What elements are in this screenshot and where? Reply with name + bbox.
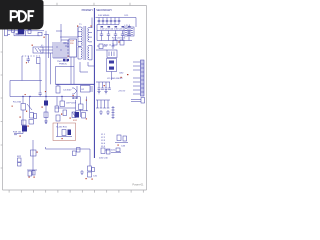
resistor R23	[18, 158, 22, 162]
node B	[22, 27, 23, 28]
node O	[61, 114, 62, 115]
resistor R12	[82, 113, 86, 119]
capacitor C3	[27, 56, 31, 63]
node R	[20, 136, 21, 137]
transistor Q2	[27, 97, 32, 113]
capacitor C17	[112, 43, 115, 49]
node F	[121, 77, 122, 78]
net label R12	[73, 120, 78, 122]
diode D13	[110, 18, 113, 25]
svg-text:L2 L3: L2 L3	[125, 25, 131, 27]
node A	[10, 28, 11, 29]
capacitor C13	[107, 31, 110, 41]
ground	[80, 170, 84, 175]
op-amp U2	[81, 86, 94, 93]
node Q2 b	[26, 111, 27, 112]
capacitor C4	[56, 84, 60, 93]
node bus j	[45, 91, 46, 92]
net label tag5	[128, 26, 131, 27]
capacitor C9	[39, 81, 42, 97]
component X2	[115, 135, 128, 143]
varistor RV1	[38, 32, 42, 36]
wire	[96, 81, 110, 83]
capacitor C8	[14, 134, 17, 135]
net label L2	[125, 25, 131, 27]
resistor R31	[88, 172, 92, 177]
sheet border	[1, 3, 147, 193]
resistor R20	[97, 44, 107, 49]
resistor R25	[28, 171, 32, 176]
net label row x112	[112, 37, 126, 39]
node R11a	[86, 100, 87, 101]
wire	[55, 97, 76, 113]
inductor L2	[124, 27, 128, 36]
svg-text:D20 C30: D20 C30	[99, 158, 108, 160]
component J2	[112, 106, 115, 119]
wire bus feeders	[53, 24, 67, 58]
node N	[42, 107, 43, 108]
wire	[56, 123, 72, 137]
net label D10 SB560	[98, 15, 110, 17]
net label R20	[104, 45, 112, 47]
net label y145	[121, 146, 126, 148]
wire	[17, 110, 23, 134]
node W	[92, 179, 93, 180]
wire	[111, 72, 113, 81]
capacitor C12	[100, 31, 103, 41]
component U6	[101, 148, 110, 154]
diode D21	[111, 148, 121, 152]
svg-text:R1 220k: R1 220k	[13, 102, 22, 104]
wire	[32, 140, 34, 175]
resistor R8	[55, 106, 59, 112]
node U	[34, 177, 35, 178]
net label tag3	[115, 26, 118, 27]
capacitor C32	[92, 168, 95, 172]
node ladder j4	[68, 56, 69, 57]
svg-text:R21 C18 D16: R21 C18 D16	[112, 37, 126, 39]
wire	[27, 169, 37, 171]
capacitor C20	[98, 82, 101, 89]
capacitor C11	[75, 112, 80, 118]
capacitor C40	[63, 59, 66, 61]
opto U3	[72, 112, 76, 118]
node Q1 e	[73, 95, 74, 96]
net label tag1	[101, 26, 104, 27]
resistor R21	[113, 40, 117, 45]
wire	[10, 30, 44, 32]
node D	[32, 45, 33, 46]
node ladder j2	[60, 49, 61, 50]
node S	[37, 152, 38, 153]
resistor R4	[22, 120, 27, 125]
net label VCC	[40, 47, 53, 53]
net label D21	[111, 150, 116, 152]
svg-text:C12 C13 C14 C15 C16: C12 C13 C14 C15 C16	[100, 28, 123, 30]
capacitor C1	[28, 30, 31, 34]
connector J1	[5, 29, 11, 36]
capacitor C15	[121, 31, 124, 41]
wire	[22, 55, 40, 57]
capacitor C23	[108, 82, 111, 89]
wire bottom feed	[46, 147, 91, 166]
resistor R1	[21, 97, 26, 111]
ground	[44, 120, 48, 124]
resistor R29	[107, 149, 111, 154]
svg-text:Power-01: Power-01	[132, 183, 144, 187]
resistor R19	[31, 150, 37, 156]
svg-text:+5V 0V: +5V 0V	[118, 91, 126, 93]
wire secondary rail top	[96, 17, 137, 19]
node Q	[62, 138, 63, 139]
inductor L3	[130, 27, 134, 36]
PDF badge	[0, 0, 44, 30]
wire	[78, 18, 94, 73]
component U4	[107, 59, 117, 72]
op-amp U1	[69, 39, 77, 57]
node M	[28, 126, 29, 127]
capacitor C7	[22, 126, 27, 132]
component U5	[68, 130, 72, 136]
resistor R2	[30, 113, 34, 119]
net label R22	[17, 156, 22, 158]
wire secondary rail gnd	[97, 40, 132, 42]
wire secondary rail mid	[97, 18, 136, 41]
ground	[99, 110, 103, 115]
resistor R28	[77, 148, 81, 153]
net label D11	[125, 15, 130, 17]
resistor R30	[88, 166, 92, 171]
node T1 pin5	[91, 26, 92, 27]
wire	[56, 31, 78, 46]
diode D14	[114, 18, 117, 25]
net label y90	[118, 91, 126, 93]
resistor R16	[62, 130, 66, 136]
capacitor C2	[16, 33, 19, 34]
svg-text:U3 PC817: U3 PC817	[66, 103, 77, 105]
component CN3	[131, 98, 145, 104]
resistor R3	[34, 114, 37, 119]
node R1a	[25, 94, 26, 95]
svg-text:CN2: CN2	[119, 73, 124, 75]
net label bus tag2	[75, 98, 77, 99]
node K	[61, 96, 62, 97]
net label TL431	[56, 127, 68, 129]
net label bus tag1	[72, 98, 74, 99]
wire	[14, 31, 40, 36]
node T	[29, 177, 30, 178]
capacitor C22	[105, 82, 108, 89]
node ladder j1	[56, 46, 57, 47]
transistor Q1	[72, 86, 77, 98]
choke L1	[18, 28, 24, 34]
resistor R9	[63, 110, 67, 116]
wire ladder joins	[53, 57, 67, 59]
node CN2 pin4	[127, 74, 128, 75]
node R12a	[86, 118, 87, 119]
net label tag4	[122, 26, 125, 27]
node X	[118, 145, 119, 146]
svg-text:C4 450V: C4 450V	[63, 90, 72, 92]
resistor R7	[60, 97, 65, 107]
node R1b	[12, 106, 13, 107]
net label SECONDARY	[96, 9, 112, 12]
capacitor C5	[44, 101, 48, 106]
net label U3	[66, 103, 77, 105]
svg-text:D10 SB560: D10 SB560	[98, 15, 110, 17]
net label NTC	[13, 132, 22, 134]
svg-text:SECONDARY: SECONDARY	[96, 9, 112, 12]
svg-text:PWM-IC: PWM-IC	[59, 64, 68, 66]
net label cap row	[100, 28, 123, 30]
net label BT1	[13, 102, 22, 104]
node H	[22, 96, 23, 97]
ground	[106, 110, 110, 115]
node P	[70, 118, 71, 119]
capacitor C18	[120, 40, 124, 45]
resistor R11	[79, 97, 84, 118]
title text	[132, 183, 144, 187]
node ladder j3	[64, 42, 65, 43]
net label U1 value	[57, 61, 68, 66]
node C3a	[26, 62, 27, 63]
node T1 pin1	[77, 26, 78, 27]
connector CN2	[133, 60, 144, 96]
net label row y77	[107, 78, 123, 80]
resistor R24	[18, 163, 22, 167]
capacitor C16	[127, 31, 130, 41]
node C	[44, 37, 45, 38]
net label C4	[63, 90, 72, 92]
fuse F1	[12, 29, 15, 32]
secondary gnd cluster	[96, 100, 110, 108]
net label tag2	[108, 26, 111, 27]
node L	[20, 117, 21, 118]
capacitor C41	[67, 59, 70, 61]
net label row y158	[99, 158, 108, 160]
node G	[104, 85, 105, 86]
net label y179	[93, 176, 98, 178]
ground	[104, 89, 107, 94]
wire	[44, 31, 51, 97]
node I	[29, 96, 30, 97]
net label col1	[101, 134, 106, 148]
wire	[10, 56, 42, 97]
resistor R26	[32, 171, 35, 176]
net label PRIMARY	[82, 9, 94, 12]
svg-text:VO GND FB NC: VO GND FB NC	[107, 78, 123, 80]
net label CN2	[119, 73, 124, 75]
svg-text:R20 1k: R20 1k	[104, 45, 112, 47]
capacitor C6	[44, 112, 48, 118]
highlight box TL431	[53, 123, 76, 141]
wire	[76, 97, 88, 111]
node V	[86, 178, 87, 179]
resistor R10	[56, 115, 60, 121]
isolation barrier line	[93, 8, 95, 158]
ground	[97, 89, 100, 94]
capacitor C21	[101, 82, 104, 89]
component K1	[96, 50, 117, 58]
diode D10	[98, 18, 101, 25]
wire primary ground bus	[56, 83, 95, 85]
diode D15	[118, 18, 121, 25]
bridge rectifier BR1	[33, 47, 43, 53]
node J	[45, 96, 46, 97]
wire main lower bus	[10, 96, 80, 98]
resistor R5	[29, 120, 34, 125]
thermistor RT1	[37, 58, 41, 64]
capacitor C14	[114, 31, 117, 41]
resistor R27	[73, 151, 77, 156]
transformer T1	[78, 26, 92, 60]
diode D11	[102, 18, 105, 25]
svg-text:PRIMARY: PRIMARY	[82, 9, 94, 12]
node E	[118, 41, 119, 42]
wire	[56, 67, 75, 85]
wire pins U1	[67, 41, 74, 84]
wire	[45, 97, 47, 125]
net label T1	[79, 24, 82, 26]
diode D12	[106, 18, 109, 25]
